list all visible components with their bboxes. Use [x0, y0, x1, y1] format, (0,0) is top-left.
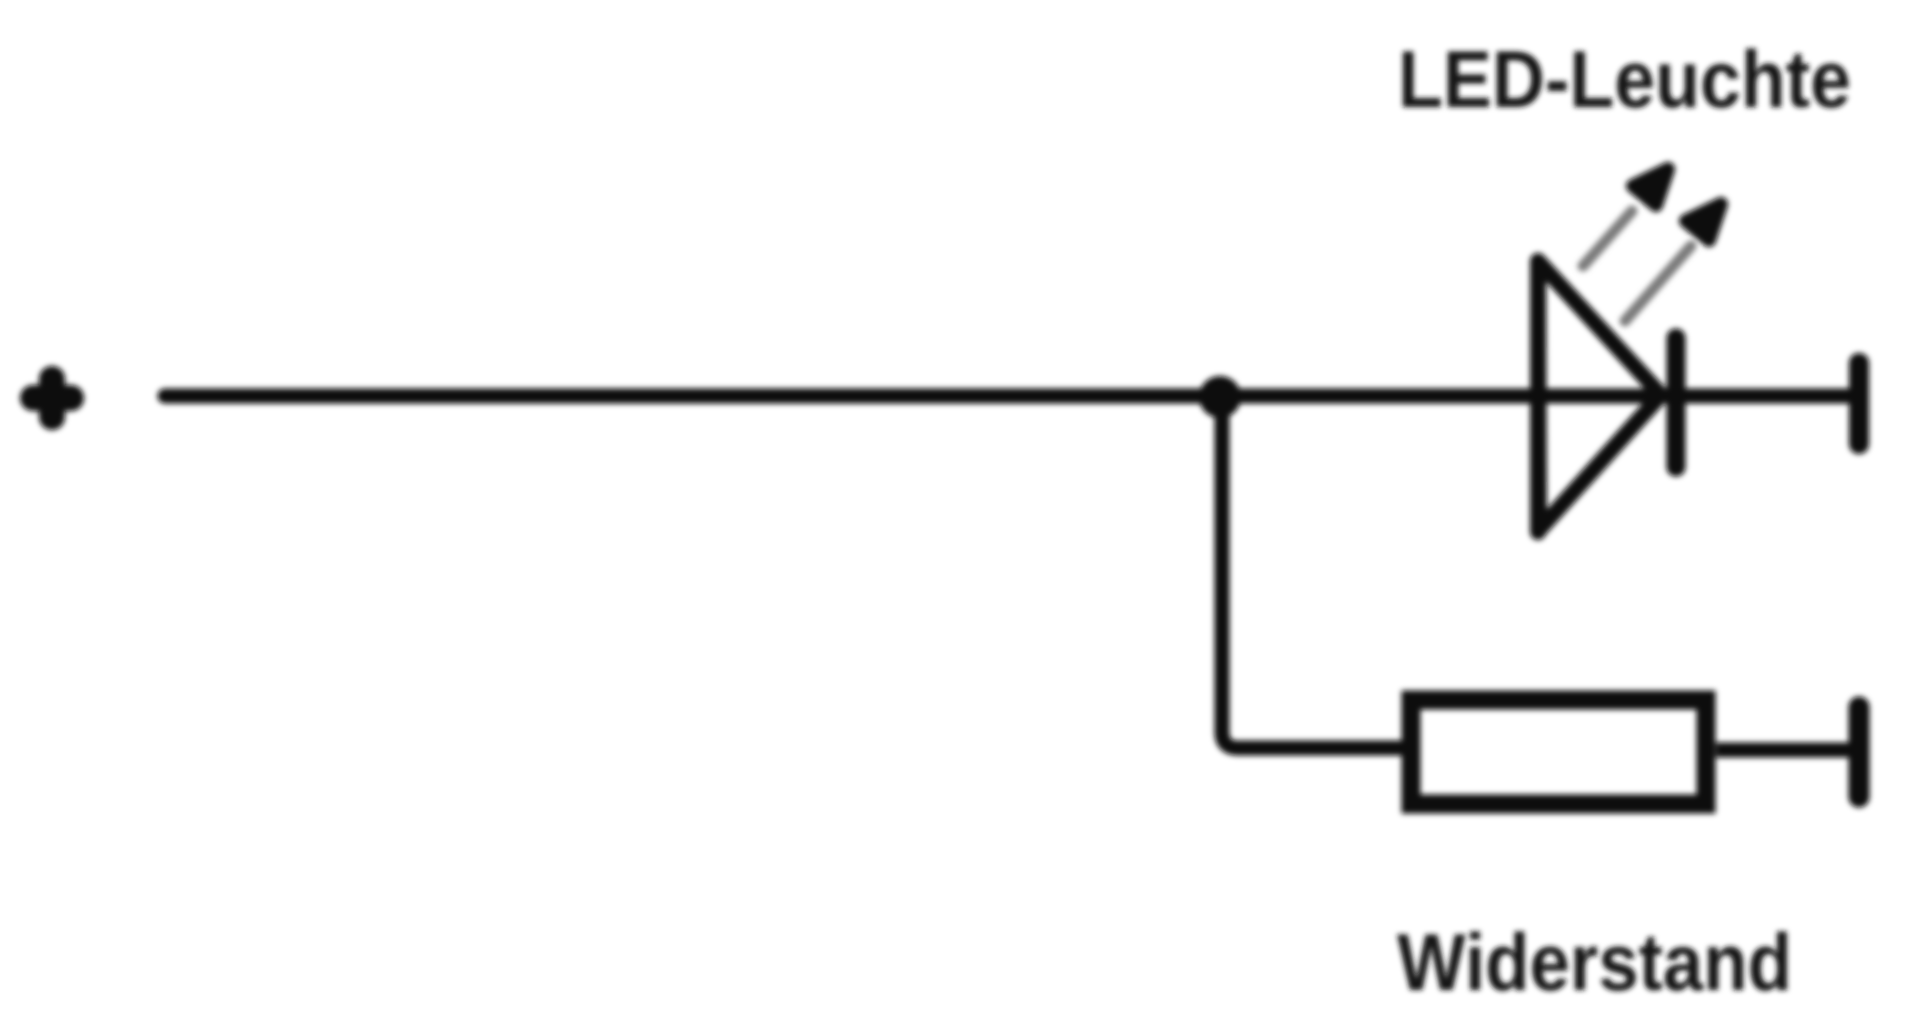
- LED light arrow 1 shaft: [1583, 211, 1632, 266]
- svg-text:LED-Leuchte: LED-Leuchte: [1398, 35, 1851, 125]
- LED D1 anode bar: [1530, 262, 1546, 532]
- LED light arrow 2 head: [1686, 204, 1721, 240]
- LED D1 cathode bar: [1667, 338, 1686, 467]
- LED light arrow 1 head: [1633, 169, 1668, 205]
- wire resistor to terminal: [1716, 743, 1849, 758]
- LED light arrow 2 shaft: [1625, 246, 1691, 321]
- wire main horizontal: [165, 389, 1849, 404]
- terminal bar bottom right: [1849, 707, 1870, 797]
- node junction dot: [1199, 376, 1241, 418]
- LED D1 triangle: [1538, 261, 1661, 530]
- terminal bar top right: [1849, 363, 1869, 444]
- resistor R1: [1411, 700, 1706, 804]
- svg-text:Widerstand: Widerstand: [1397, 918, 1792, 1008]
- plus terminal (+): [33, 379, 71, 417]
- wire junction down and to resistor: [1222, 397, 1402, 748]
